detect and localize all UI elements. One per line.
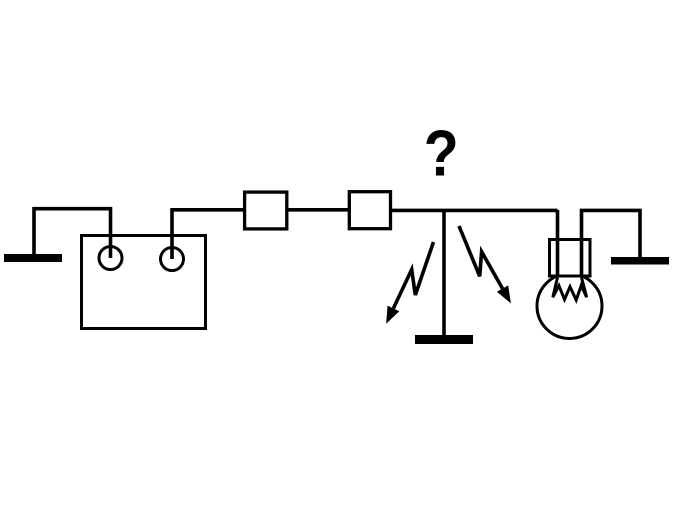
svg-text:?: ? (424, 117, 459, 189)
